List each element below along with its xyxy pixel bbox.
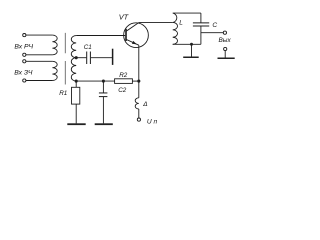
wire tank bottom rail: [173, 43, 201, 45]
terminal Вх РЧ bottom: [23, 53, 26, 56]
wire: [26, 80, 52, 82]
svg-text:Вх ЗЧ: Вх ЗЧ: [14, 69, 33, 76]
wire: [26, 60, 52, 62]
wire tank ground stem: [191, 44, 193, 56]
wire emitter down: [138, 45, 140, 98]
ground bar (R1): [67, 123, 85, 125]
terminal Вых lower: [224, 47, 227, 50]
wire: [26, 54, 52, 56]
wire: [26, 34, 52, 36]
node secondary bottom: [75, 80, 78, 83]
svg-text:C2: C2: [118, 87, 127, 94]
inductor L: [173, 13, 201, 44]
terminal Un: [137, 118, 140, 121]
wire secondary top to base: [76, 35, 125, 37]
ground bar (output): [218, 58, 235, 60]
terminal Вх РЧ top: [23, 34, 26, 37]
transistor VT circle: [124, 23, 149, 48]
wire C stem bottom: [200, 26, 202, 44]
terminal Вых: [223, 31, 226, 34]
node tap (to C1): [75, 56, 78, 59]
transformer T1 secondary winding: [71, 36, 76, 82]
svg-text:VT: VT: [119, 13, 129, 22]
svg-text:R1: R1: [59, 90, 67, 97]
svg-text:C1: C1: [84, 44, 92, 51]
transistor VT emitter: [126, 39, 139, 45]
transformer T1 primary winding 1: [52, 35, 57, 55]
svg-text:C: C: [212, 22, 217, 29]
node tank ground: [190, 43, 193, 46]
choke winding: [135, 98, 139, 109]
ground bar (C2): [95, 123, 113, 125]
wire collector to L tap: [139, 21, 173, 23]
wire lower terminal stem: [224, 51, 226, 58]
wire tap to C1: [76, 57, 86, 59]
wire C1 to chassis: [91, 57, 112, 59]
terminal Вх ЗЧ bottom: [23, 79, 26, 82]
wire C2 to ground: [102, 97, 104, 123]
wire C2 stem: [102, 81, 104, 92]
emitter arrowhead: [132, 41, 137, 44]
chassis bar (C1 side): [112, 49, 114, 65]
svg-text:Вых: Вых: [219, 37, 232, 44]
capacitor C: [193, 22, 209, 24]
wire choke to Un terminal: [138, 109, 140, 118]
wire R2 to emitter line: [132, 80, 138, 82]
wire bottom rail left: [76, 80, 114, 82]
svg-text:U п: U п: [147, 119, 158, 126]
ground bar (tank): [183, 57, 199, 59]
capacitor C1: [86, 52, 88, 65]
wire C stem top: [200, 13, 202, 23]
terminal Вх ЗЧ top: [23, 60, 26, 63]
wire output: [201, 32, 223, 34]
wire R1 stem: [75, 81, 77, 87]
svg-text:R2: R2: [119, 72, 128, 79]
svg-text:L: L: [179, 20, 183, 27]
transformer T1 core: [64, 33, 66, 85]
transistor VT collector: [126, 22, 139, 31]
svg-text:Δ: Δ: [142, 101, 147, 108]
svg-text:Вх РЧ: Вх РЧ: [14, 44, 33, 51]
transistor VT base bar: [125, 29, 127, 41]
node emitter junction: [137, 80, 140, 83]
capacitor C2: [99, 92, 108, 94]
node C2 branch: [102, 80, 105, 83]
wire R1 to ground: [75, 104, 77, 123]
resistor R1: [72, 87, 80, 104]
resistor R2: [115, 79, 133, 84]
transformer T1 primary winding 2: [52, 61, 57, 80]
